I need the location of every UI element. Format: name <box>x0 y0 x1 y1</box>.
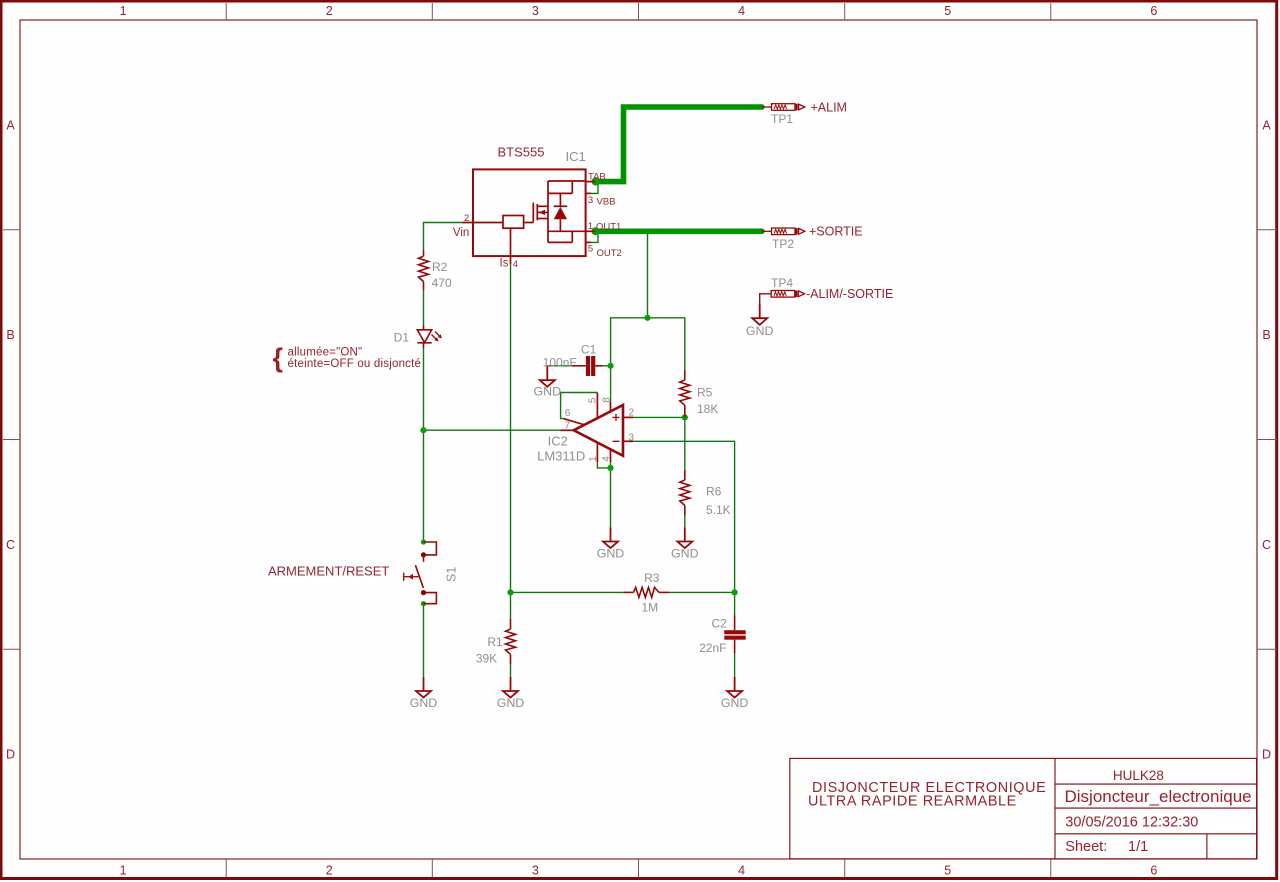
junction S1 top pin <box>421 539 426 544</box>
junction bottom node R1/R3 <box>507 589 513 595</box>
svg-text:IC1: IC1 <box>566 149 586 164</box>
junction node OUT1/comparator <box>644 315 650 321</box>
svg-text:S1: S1 <box>445 567 459 582</box>
svg-text:39K: 39K <box>476 652 497 666</box>
wire node horizontal <box>611 318 685 370</box>
svg-text:R6: R6 <box>706 485 722 499</box>
svg-text:GND: GND <box>597 546 625 560</box>
wire R2 to D1 <box>423 290 425 326</box>
ground IC2 <box>603 528 618 549</box>
wire R3 right to C2 node <box>669 591 734 593</box>
resistor R5 18K <box>680 370 690 418</box>
svg-text:R5: R5 <box>697 386 713 400</box>
svg-text:éteinte=OFF ou disjoncté: éteinte=OFF ou disjoncté <box>288 358 422 370</box>
wire bottom node to R3 left <box>511 591 624 593</box>
LED D1 <box>417 326 442 349</box>
junction C1/pin8 node <box>608 363 614 369</box>
svg-text:Disjoncteur_electronique: Disjoncteur_electronique <box>1065 787 1252 806</box>
svg-text:470: 470 <box>432 276 452 290</box>
test point TP2 +SORTIE <box>762 228 805 235</box>
wire R1 to GND <box>510 665 512 677</box>
svg-text:D: D <box>1262 748 1271 762</box>
svg-text:TP1: TP1 <box>771 112 793 126</box>
svg-text:C1: C1 <box>581 343 597 357</box>
wire OUT1 down to node <box>647 231 649 317</box>
svg-text:BTS555: BTS555 <box>498 145 545 160</box>
svg-text:VBB: VBB <box>597 197 616 208</box>
svg-text:3: 3 <box>629 433 635 444</box>
op-amp IC2 LM311D <box>561 393 634 463</box>
svg-text:R2: R2 <box>432 260 448 274</box>
svg-text:D1: D1 <box>394 331 410 345</box>
junction pin1/pin4 node <box>607 465 613 471</box>
svg-text:1/1: 1/1 <box>1128 839 1148 855</box>
junction OUT1 wire end <box>592 227 600 235</box>
svg-text:HULK28: HULK28 <box>1113 768 1164 783</box>
svg-text:5: 5 <box>944 863 951 877</box>
svg-text:2: 2 <box>464 213 469 224</box>
wire C2 node down <box>734 592 736 615</box>
wire C1 left to GND <box>547 365 577 367</box>
junction D1/S1/pin7 node <box>420 427 426 433</box>
svg-text:B: B <box>1262 328 1270 342</box>
svg-text:2: 2 <box>326 4 333 18</box>
wire IC2 balance pins 5-6 <box>561 393 598 419</box>
svg-text:2: 2 <box>326 863 333 877</box>
wire node to IC2 output pin7 <box>424 429 561 431</box>
svg-text:1: 1 <box>120 863 127 877</box>
svg-text:+ALIM: +ALIM <box>811 100 847 114</box>
svg-text:LM311D: LM311D <box>537 449 585 464</box>
wire IC2 pin1/pin4 bracket <box>597 462 610 468</box>
svg-text:TAB: TAB <box>588 171 606 182</box>
wire D1 to node <box>423 348 425 430</box>
wire S1 to GND <box>423 604 425 677</box>
wire Vin from IC1 pin2 down to R2 <box>424 223 463 251</box>
test point TP1 +ALIM <box>762 104 805 111</box>
ground C1 <box>540 366 555 387</box>
svg-text:allumée="ON": allumée="ON" <box>288 346 363 358</box>
wire +ALIM thick (TAB to TP1) <box>596 107 762 182</box>
wire TAB-VBB link <box>591 182 598 194</box>
svg-text:1: 1 <box>588 456 599 462</box>
svg-text:Vin: Vin <box>453 227 469 239</box>
svg-text:GND: GND <box>671 546 699 560</box>
svg-text:C: C <box>1262 538 1271 552</box>
svg-text:B: B <box>6 328 14 342</box>
ground C2 <box>727 677 742 698</box>
wire IC2 pin3 to R3/C2 node <box>633 441 735 592</box>
svg-text:6: 6 <box>1150 4 1157 18</box>
wire OUT1-OUT2 link <box>591 232 598 242</box>
junction R3/C2 node <box>732 589 738 595</box>
test point TP4 -ALIM/-SORTIE <box>760 291 805 305</box>
svg-text:3: 3 <box>588 195 593 206</box>
svg-text:ARMEMENT/RESET: ARMEMENT/RESET <box>268 564 389 579</box>
resistor R6 5.1K <box>680 470 690 516</box>
svg-text:4: 4 <box>601 456 612 462</box>
svg-text:OUT1: OUT1 <box>596 221 621 232</box>
svg-text:ULTRA RAPIDE REARMABLE: ULTRA RAPIDE REARMABLE <box>808 794 1017 810</box>
wire C2 bottom to GND <box>734 653 736 677</box>
svg-text:Sheet:: Sheet: <box>1065 839 1107 855</box>
ground R6 <box>677 528 692 549</box>
svg-text:2: 2 <box>629 408 635 419</box>
svg-text:GND: GND <box>497 696 525 710</box>
svg-text:C: C <box>6 538 15 552</box>
wire node to R1 <box>510 592 512 618</box>
resistor R3 1M <box>623 587 669 597</box>
svg-text:5: 5 <box>588 397 599 403</box>
wire R6 to GND <box>684 516 686 528</box>
junction pin2/R5/R6 node <box>682 414 688 420</box>
svg-text:7: 7 <box>565 421 571 432</box>
svg-text:5.1K: 5.1K <box>706 503 731 517</box>
svg-text:A: A <box>6 118 15 132</box>
svg-text:{: { <box>273 343 284 373</box>
resistor R2 470 <box>419 250 429 290</box>
svg-text:18K: 18K <box>697 402 718 416</box>
capacitor C1 100nF <box>572 356 603 376</box>
svg-text:8: 8 <box>602 397 613 403</box>
svg-text:Is: Is <box>500 258 509 270</box>
resistor R1 39K <box>506 619 516 665</box>
svg-text:+SORTIE: +SORTIE <box>809 225 863 239</box>
svg-text:1M: 1M <box>641 601 658 615</box>
svg-text:4: 4 <box>513 259 518 270</box>
wire C1 right to node <box>603 365 611 367</box>
switch S1 ARMEMENT/RESET <box>404 542 437 604</box>
junction TAB wire end <box>592 178 600 186</box>
IC1 BTS555 high-side switch <box>453 145 622 270</box>
junction S1 bottom pin <box>421 601 426 606</box>
svg-text:30/05/2016 12:32:30: 30/05/2016 12:32:30 <box>1065 815 1198 831</box>
svg-text:5: 5 <box>944 4 951 18</box>
svg-text:22nF: 22nF <box>699 641 726 655</box>
svg-text:R1: R1 <box>487 635 503 649</box>
wire node to IC2 pin8 <box>610 366 612 402</box>
ground TP4 <box>752 304 767 325</box>
svg-text:GND: GND <box>721 696 749 710</box>
wire node to S1 <box>423 430 425 542</box>
ground R1 <box>503 677 518 698</box>
svg-text:TP4: TP4 <box>771 276 793 290</box>
svg-text:R3: R3 <box>644 571 660 585</box>
svg-text:6: 6 <box>565 408 571 419</box>
svg-text:OUT2: OUT2 <box>597 248 622 259</box>
svg-text:3: 3 <box>532 4 539 18</box>
wire +SORTIE thick (OUT1 to TP2) <box>596 229 762 235</box>
svg-text:GND: GND <box>746 324 774 338</box>
svg-text:GND: GND <box>534 384 562 398</box>
svg-text:D: D <box>6 748 15 762</box>
svg-text:GND: GND <box>410 696 438 710</box>
svg-text:A: A <box>1262 118 1271 132</box>
svg-text:TP2: TP2 <box>772 237 794 251</box>
svg-text:-ALIM/-SORTIE: -ALIM/-SORTIE <box>806 287 893 301</box>
svg-text:IC2: IC2 <box>548 434 568 449</box>
capacitor C2 22nF <box>724 616 745 654</box>
svg-text:1: 1 <box>588 221 593 232</box>
svg-text:C2: C2 <box>712 617 728 631</box>
wire IC2 pin2 to R5/R6 node <box>633 416 685 418</box>
ground S1 <box>416 677 431 698</box>
svg-text:4: 4 <box>738 863 745 877</box>
svg-text:5: 5 <box>588 243 593 254</box>
wire R5/R6 node down to R6 <box>684 417 686 469</box>
svg-text:3: 3 <box>532 863 539 877</box>
wire Is pin down to bottom node <box>510 264 512 592</box>
wire IC2 pin4 to GND <box>610 462 612 528</box>
svg-text:4: 4 <box>738 4 745 18</box>
svg-text:1: 1 <box>120 4 127 18</box>
svg-text:6: 6 <box>1150 863 1157 877</box>
